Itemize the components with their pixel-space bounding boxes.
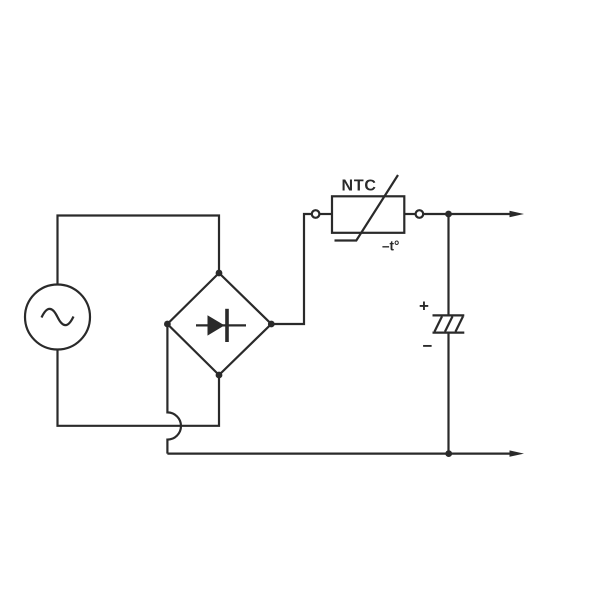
svg-text:−: − bbox=[423, 337, 433, 356]
capacitor C1 (polarized, hatched) bbox=[433, 315, 465, 332]
AC source G1 bbox=[25, 285, 90, 350]
node: bridge top vertex bbox=[216, 270, 223, 277]
arrow: negative output bbox=[510, 450, 525, 456]
wire: capacitor to bottom rail bbox=[447, 333, 449, 454]
wire: AC source bottom to bridge bottom vertex bbox=[58, 350, 220, 426]
wire: positive output rail bbox=[423, 213, 510, 215]
node: junction at capacitor bottom bbox=[445, 450, 452, 457]
wire: terminal to NTC box bbox=[319, 213, 332, 215]
bridge rectifier diamond bbox=[167, 273, 271, 375]
node: bridge right vertex bbox=[268, 321, 275, 328]
svg-text:+: + bbox=[419, 297, 429, 316]
wire: bridge left vertex down with hop over AC wire bbox=[167, 324, 181, 454]
svg-text:NTC: NTC bbox=[342, 178, 377, 195]
wire: AC source top to bridge top vertex bbox=[58, 216, 220, 285]
wire: junction down to capacitor bbox=[447, 214, 449, 315]
diode inside bridge bbox=[196, 309, 246, 342]
node: bridge bottom vertex bbox=[216, 372, 223, 379]
wire: negative output rail bbox=[167, 453, 510, 455]
terminal: NTC left pin bbox=[312, 210, 320, 218]
wire: NTC box to right terminal bbox=[404, 213, 415, 215]
svg-text:–t°: –t° bbox=[382, 239, 399, 254]
thermistor diagonal stroke bbox=[335, 175, 399, 241]
arrow: positive output bbox=[510, 211, 525, 217]
node: junction at capacitor top bbox=[445, 211, 452, 218]
node: bridge left vertex bbox=[164, 321, 171, 328]
wire: bridge right vertex up to NTC input bbox=[271, 214, 312, 324]
thermistor NTC body bbox=[332, 196, 404, 233]
terminal: NTC right pin bbox=[416, 210, 424, 218]
